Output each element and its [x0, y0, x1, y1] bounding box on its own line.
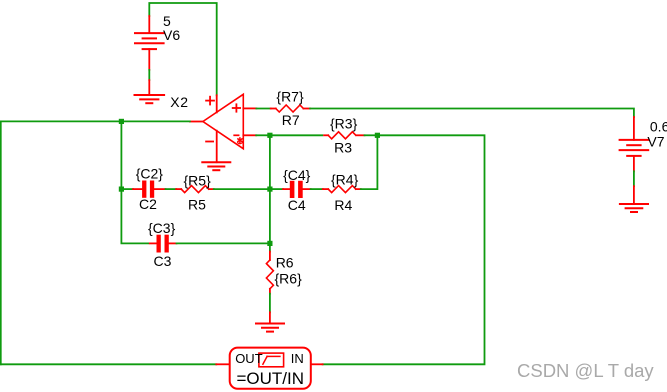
capacitor C2 — [133, 181, 166, 198]
wire: feedback vertical lower segment to C3 row — [121, 189, 148, 243]
svg-text:V6: V6 — [163, 27, 180, 43]
ground below R6 — [256, 312, 284, 331]
wire: inverting node to R3 — [270, 134, 323, 136]
resistor R7 — [271, 105, 310, 112]
wire: V+ supply rail from V6 top to op-amp V+ pin — [149, 3, 216, 95]
svg-text:R7: R7 — [282, 112, 300, 128]
wire: bottom run to meter OUT pin — [1, 363, 217, 365]
junction: output node feedback tap — [119, 119, 124, 124]
wire: R6 to ground — [269, 294, 271, 313]
svg-text:{R5}: {R5} — [184, 172, 212, 188]
wire: op-amp output to feedback tap — [121, 120, 189, 122]
resistor R5 — [176, 186, 214, 193]
op-amp X2 — [190, 94, 257, 162]
svg-text:{C2}: {C2} — [136, 166, 164, 182]
wire: left rail down — [0, 121, 2, 364]
svg-text:C2: C2 — [139, 196, 157, 212]
svg-text:X2: X2 — [170, 94, 188, 110]
voltage source V6 — [135, 16, 164, 70]
voltage source V7 — [620, 117, 649, 171]
resistor R3 — [324, 132, 364, 139]
wire: C4 to R4 — [311, 188, 323, 190]
wire: noninverting input to R7 — [256, 108, 270, 110]
svg-text:{R7}: {R7} — [276, 89, 304, 105]
wire: node tap to C4 — [270, 188, 283, 190]
wire: inverting node vertical — [269, 135, 271, 243]
svg-text:R6: R6 — [276, 255, 294, 271]
svg-text:OUT: OUT — [235, 351, 263, 366]
svg-text:IN: IN — [291, 351, 304, 366]
svg-text:{C3}: {C3} — [148, 220, 176, 236]
svg-text:{R3}: {R3} — [330, 115, 358, 131]
svg-text:V7: V7 — [647, 134, 664, 150]
svg-text:{R4}: {R4} — [331, 171, 359, 187]
capacitor C4 — [283, 181, 311, 198]
svg-text:=OUT/IN: =OUT/IN — [237, 369, 305, 388]
wire: R5 to inverting-branch node — [214, 188, 270, 190]
wire: output node to left rail — [1, 120, 122, 122]
svg-text:R3: R3 — [334, 139, 352, 155]
wire: R4 up to R3 row — [361, 135, 378, 189]
wire: feedback vertical upper segment — [120, 121, 122, 189]
svg-text:R4: R4 — [334, 197, 352, 213]
ground below V6 — [135, 80, 165, 103]
svg-text:{R6}: {R6} — [275, 271, 303, 287]
svg-text:R5: R5 — [188, 196, 206, 212]
svg-text:C3: C3 — [154, 253, 172, 269]
wire: C3 to inverting node vertical — [177, 242, 270, 244]
ground below V7 — [620, 186, 648, 212]
wire: right node to meter IN loop — [323, 135, 485, 364]
junction: R3/R4 right node — [375, 133, 380, 138]
wire: V7 negative to ground — [633, 171, 635, 186]
meter transfer curve icon — [259, 353, 284, 367]
svg-text:CSDN @L T day: CSDN @L T day — [517, 360, 654, 381]
resistor R6 — [266, 252, 273, 294]
capacitor C3 — [150, 235, 177, 253]
meter OUT/IN transfer-function probe — [216, 348, 322, 389]
wire: R3 to right branch junction — [365, 134, 378, 136]
svg-text:0.6: 0.6 — [650, 119, 667, 135]
wire: C2 to R5 — [166, 188, 177, 190]
svg-text:C4: C4 — [288, 197, 306, 213]
wire: R7 to V7 — [310, 109, 634, 118]
ground at op-amp V- pin — [202, 162, 230, 170]
junction: C2 row tap — [119, 187, 124, 192]
wire: node tap to R6 — [269, 243, 271, 251]
svg-text:{C4}: {C4} — [283, 167, 311, 183]
resistor R4 — [323, 186, 361, 193]
wire: V6 negative to ground — [148, 70, 150, 80]
junction: inverting node tap — [267, 133, 272, 138]
junction: mid row node tap — [267, 187, 272, 192]
wire: C2 row tap to C2 — [121, 188, 133, 190]
wire: inverting input to node — [256, 134, 270, 136]
junction: C3 row node tap — [267, 241, 272, 246]
